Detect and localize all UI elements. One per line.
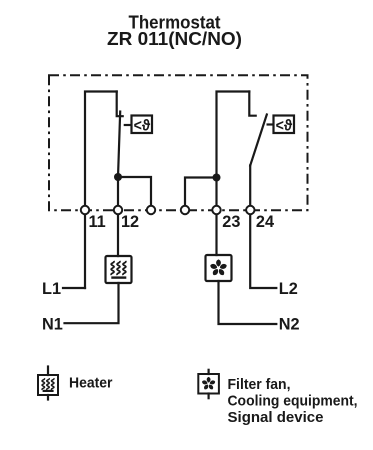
wire: junction down through terminal 23 to fan [215, 178, 217, 256]
junction node (right) [213, 174, 221, 182]
wire: fan to N2 [219, 281, 277, 324]
terminal 23 [212, 206, 220, 214]
temperature sensor symbol box right: < theta [274, 116, 295, 135]
svg-text:11: 11 [89, 213, 106, 231]
wire: blade through terminal 24 down to L2 [250, 166, 276, 289]
svg-text:ZR 011(NC/NO): ZR 011(NC/NO) [107, 28, 242, 49]
svg-text:24: 24 [256, 213, 274, 231]
svg-text:Signal device: Signal device [228, 409, 324, 426]
terminal 11 [81, 206, 89, 214]
wire: junction to spare terminal (third circle) [118, 177, 151, 209]
wire: spare terminal 4 up and to junction [185, 178, 217, 209]
svg-text:Filter fan,: Filter fan, [228, 376, 291, 393]
temperature sensor symbol box left: < theta [132, 116, 153, 135]
terminal 24 [246, 206, 254, 214]
contact S1 fixed contact with tick (NC, terminals 11-12) [117, 92, 123, 117]
contact S1 movable blade (closed) [118, 112, 120, 178]
svg-text:N1: N1 [42, 316, 63, 334]
svg-text:<ϑ: <ϑ [134, 118, 151, 135]
svg-text:23: 23 [222, 213, 240, 231]
temperature actuator link dash (right) [268, 123, 273, 125]
temperature actuator link dash (left) [125, 124, 131, 126]
svg-text:Heater: Heater [69, 374, 113, 391]
svg-text:N2: N2 [279, 316, 300, 334]
svg-text:12: 12 [121, 213, 139, 231]
wire: junction down through terminal 12 to heater [117, 177, 119, 256]
heater E1 symbol box [106, 256, 132, 283]
legend heater symbol [38, 367, 58, 400]
wire: terminal 11 riser and top horizontal to fixed contact [85, 92, 117, 289]
svg-text:L2: L2 [279, 280, 298, 298]
legend fan symbol [198, 370, 219, 398]
title text Thermostat [107, 12, 242, 50]
spare terminal (unnumbered, left) [147, 206, 155, 214]
wire: terminal 23 riser and top horizontal to fixed contact [217, 92, 250, 178]
fan M1 symbol box [206, 255, 232, 281]
spare terminal (unnumbered, right) [181, 206, 189, 214]
svg-text:Cooling equipment,: Cooling equipment, [228, 393, 358, 410]
contact S2 movable blade (open) [250, 115, 267, 166]
wire: L1 lead [63, 287, 85, 289]
legend label: Filter fan, Cooling equipment, Signal device [228, 376, 358, 426]
thermostat enclosure dash-dot boundary [49, 75, 308, 210]
terminal 12 [114, 206, 122, 214]
contact S2 fixed contact with tick (NO, terminals 23-24) [249, 92, 255, 116]
wire: heater to N1 [65, 283, 119, 323]
svg-text:<ϑ: <ϑ [276, 118, 293, 135]
junction node (left) [114, 173, 122, 181]
svg-text:L1: L1 [42, 280, 61, 298]
